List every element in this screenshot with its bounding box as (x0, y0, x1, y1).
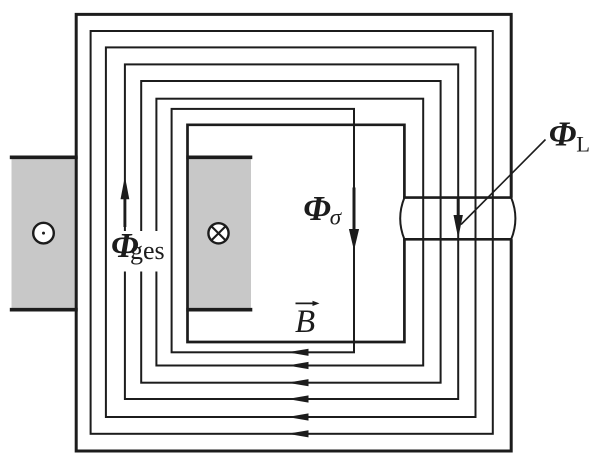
flux line R5 (141, 81, 440, 383)
bottom arrowhead on R5 (288, 379, 309, 386)
current out symbol (dot in circle) (33, 223, 54, 244)
svg-text:L: L (576, 131, 590, 156)
label Phi_ges (111, 226, 165, 265)
arrow Phi_L (down, in air gap) (454, 198, 463, 238)
bottom arrowhead on R3 (288, 413, 309, 420)
svg-text:Φ: Φ (549, 114, 577, 153)
bottom arrowhead on R4 (288, 395, 309, 402)
outer core edge R1 (right side interrupted at air gap) (76, 14, 511, 451)
flux line R7 (leakage path) (172, 109, 354, 352)
label Phi_L (549, 114, 590, 156)
inner coil top cap (186, 156, 252, 160)
left coil block (gray) (12, 157, 78, 310)
bottom arrowhead on R7 (288, 349, 309, 356)
left coil top cap (10, 156, 78, 160)
pointer line from Phi_L label to gap arrow (461, 140, 546, 225)
arrow Phi_sigma (down) (349, 188, 359, 251)
core window edge (right side interrupted at air gap) (188, 125, 405, 342)
svg-text:B: B (295, 304, 315, 340)
svg-text:ges: ges (130, 236, 165, 265)
flux line R6 (156, 99, 423, 366)
current in symbol (cross in circle) (208, 223, 228, 243)
flux line R2 (91, 31, 493, 434)
left coil bottom cap (10, 308, 78, 312)
flux line R3 (106, 47, 476, 417)
bottom arrowhead on R2 (288, 430, 309, 437)
label B with vector arrow (295, 301, 320, 340)
bottom arrowhead on R6 (288, 362, 309, 369)
inner coil bottom cap (186, 308, 252, 312)
inner coil block (gray) (188, 157, 252, 310)
air gap bottom face (403, 238, 512, 241)
air gap left fringing arc (400, 198, 404, 240)
svg-text:Φ: Φ (303, 189, 331, 228)
flux line R4 (125, 64, 458, 399)
label Phi_sigma (303, 189, 343, 229)
white patch behind Phi_ges label (111, 231, 171, 272)
arrow Phi_ges (up) (121, 176, 130, 227)
air gap right fringing arc (511, 198, 515, 240)
svg-text:σ: σ (330, 204, 343, 229)
air gap top face (403, 196, 512, 199)
